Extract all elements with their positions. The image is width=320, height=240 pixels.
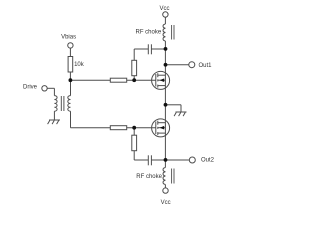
svg-text:Vcc: Vcc: [159, 6, 169, 12]
svg-text:Out1: Out1: [199, 63, 213, 69]
svg-text:Vbias: Vbias: [61, 35, 76, 41]
svg-text:Vcc: Vcc: [161, 200, 171, 206]
svg-text:Out2: Out2: [201, 158, 215, 164]
svg-text:RF choke: RF choke: [136, 29, 162, 35]
svg-text:Drive: Drive: [23, 85, 38, 91]
svg-text:10k: 10k: [74, 62, 85, 68]
svg-text:RF choke: RF choke: [136, 174, 162, 180]
